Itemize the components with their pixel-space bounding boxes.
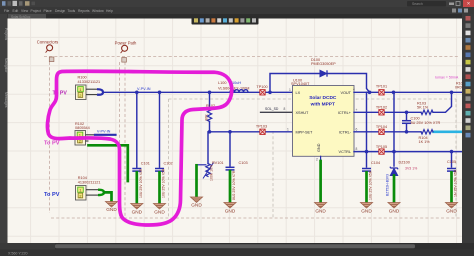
svg-text:C101: C101 — [141, 162, 150, 166]
svg-text:Solar DCDC: Solar DCDC — [309, 95, 337, 101]
svg-text:SOL_SD: SOL_SD — [265, 107, 279, 111]
svg-text:30K: 30K — [204, 114, 208, 121]
capacitor C102 — [155, 169, 164, 172]
varistor RV101 — [206, 164, 210, 177]
wire XSHUT / SOL_SD — [261, 111, 293, 113]
svg-text:✕: ✕ — [467, 1, 471, 6]
svg-text:8U 25V 10% X7R: 8U 25V 10% X7R — [411, 121, 441, 125]
svg-text:Search: Search — [412, 2, 423, 6]
wire VCTRL row — [354, 151, 462, 153]
diode D100 — [320, 70, 327, 76]
bottom scrollbar — [0, 243, 474, 250]
ground C105 — [446, 203, 458, 209]
svg-text:+: + — [356, 108, 358, 112]
tab strip — [0, 14, 474, 19]
capacitor C100 — [406, 112, 408, 119]
svg-text:GND: GND — [446, 209, 457, 214]
svg-text:4: 4 — [353, 88, 355, 92]
svg-text:Window: Window — [92, 9, 104, 13]
svg-text:8: 8 — [284, 107, 286, 111]
svg-text:XSHUT: XSHUT — [296, 111, 310, 115]
wire R102 pin2 green — [89, 145, 128, 181]
svg-text:5K 1%: 5K 1% — [417, 106, 429, 110]
capacitor C101 — [132, 169, 141, 172]
wire VOUT feedback vertical — [393, 92, 395, 166]
net label V-PV-IN stub — [95, 134, 116, 136]
wire V-PV-IN main — [103, 91, 293, 93]
svg-text:2: 2 — [316, 158, 318, 162]
svg-text:Projects: Projects — [4, 28, 8, 41]
svg-text:C105: C105 — [447, 160, 456, 164]
ground C103 — [224, 203, 236, 209]
svg-text:1: 1 — [289, 88, 291, 92]
svg-text:8: 8 — [356, 147, 358, 151]
svg-text:R100: R100 — [78, 76, 87, 80]
svg-text:1K 1%: 1K 1% — [419, 140, 431, 144]
svg-text:1: 1 — [287, 127, 289, 131]
wire ICTRL+ row — [354, 111, 421, 113]
blanket dashed box — [169, 99, 457, 218]
resistor R103 — [421, 110, 433, 114]
svg-text:X:560 Y:220: X:560 Y:220 — [8, 251, 28, 255]
capacitor C104 — [362, 169, 371, 172]
svg-text:To PV: To PV — [44, 192, 60, 198]
wire D100-VOUT vertical — [366, 92, 368, 151]
svg-text:C102: C102 — [164, 162, 173, 166]
svg-text:GND: GND — [315, 209, 326, 214]
floating toolbar — [192, 17, 259, 25]
svg-text:10U 25V 10% X5R: 10U 25V 10% X5R — [139, 168, 143, 198]
svg-text:V-PV-IN: V-PV-IN — [137, 87, 151, 91]
svg-text:Tools: Tools — [68, 9, 76, 13]
junction dots — [135, 91, 139, 95]
ground R104 — [106, 202, 118, 208]
wire C103 branch — [229, 132, 231, 166]
wire RV101 branch — [207, 132, 209, 164]
svg-text:GND: GND — [389, 209, 400, 214]
node joiner R100 — [97, 89, 103, 95]
wire R102 branch top — [209, 92, 211, 108]
magenta highlighter loop — [47, 71, 231, 225]
wire C105 branch — [451, 152, 453, 167]
svg-text:MPP-SET: MPP-SET — [296, 130, 314, 134]
svg-text:TP102: TP102 — [376, 105, 387, 109]
wire R104 green to gnd — [98, 190, 104, 195]
wire C101 branch — [136, 92, 138, 167]
wire RV101 to gnd — [197, 164, 206, 166]
wire VOUT row — [354, 91, 462, 93]
region divider dashed lines — [44, 57, 460, 219]
capacitor C105 — [447, 169, 456, 172]
resistor R102 — [207, 109, 211, 122]
svg-text:Navigator: Navigator — [4, 58, 8, 73]
menu bar — [0, 7, 474, 14]
close button — [463, 0, 474, 7]
svg-text:C100: C100 — [411, 116, 420, 120]
svg-text:C103: C103 — [239, 161, 248, 165]
left panel strip — [0, 14, 8, 243]
search box — [407, 1, 446, 7]
svg-text:41300211121: 41300211121 — [78, 180, 101, 184]
wire C104 branch — [366, 152, 368, 167]
wire MPP-SET row — [210, 131, 293, 133]
svg-text:GND: GND — [191, 203, 202, 208]
svg-text:PMEG3050EP: PMEG3050EP — [311, 62, 336, 66]
ground DZ100 — [388, 203, 400, 209]
svg-text:Solar.SchDoc: Solar.SchDoc — [11, 15, 31, 19]
svg-text:Project: Project — [31, 9, 41, 13]
zener diode DZ100 — [390, 167, 397, 176]
svg-text:GND: GND — [317, 143, 321, 152]
resistor R104 — [421, 130, 433, 134]
svg-text:TP100: TP100 — [256, 85, 267, 89]
svg-text:10uH: 10uH — [232, 81, 241, 85]
svg-text:10U 25V 10% X5R: 10U 25V 10% X5R — [369, 170, 373, 200]
svg-text:Place: Place — [44, 9, 52, 13]
svg-text:L100: L100 — [218, 81, 226, 85]
right toolbar — [462, 14, 474, 243]
ground U100 — [315, 203, 327, 209]
svg-text:41330211121: 41330211121 — [78, 80, 101, 84]
title bar — [0, 0, 474, 7]
wire R102 branch bottom — [209, 122, 211, 132]
svg-text:GND: GND — [154, 210, 165, 215]
ground C102 — [154, 204, 166, 210]
ground C104 — [361, 203, 373, 209]
svg-text:ICTRL+: ICTRL+ — [338, 111, 352, 115]
status bar — [0, 250, 474, 256]
svg-text:Power Path: Power Path — [115, 40, 137, 45]
ground C101 — [131, 204, 143, 210]
svg-text:6: 6 — [356, 127, 358, 131]
svg-text:Edit: Edit — [13, 9, 19, 13]
svg-text:DZ100: DZ100 — [399, 161, 410, 165]
wire ICTRL- highlighted cyan — [434, 131, 463, 134]
svg-text:Help: Help — [106, 9, 113, 13]
svg-text:Reports: Reports — [78, 9, 90, 13]
svg-text:0805544: 0805544 — [75, 126, 90, 130]
svg-text:1N 25V 10% X5R: 1N 25V 10% X5R — [454, 169, 458, 197]
ground RV101 — [191, 197, 203, 203]
svg-text:View: View — [21, 9, 29, 13]
svg-text:RV101: RV101 — [212, 161, 224, 165]
wire C102 branch — [159, 92, 161, 167]
svg-text:GND: GND — [132, 210, 143, 215]
svg-text:Messages: Messages — [4, 92, 8, 108]
svg-text:GND: GND — [106, 207, 117, 212]
svg-text:Iomax = 50mA: Iomax = 50mA — [435, 75, 459, 79]
svg-text:Design: Design — [55, 9, 65, 13]
svg-text:C104: C104 — [371, 161, 380, 165]
svg-text:3V3 1%: 3V3 1% — [405, 167, 417, 171]
svg-text:GND: GND — [225, 209, 236, 214]
svg-text:with MPPT: with MPPT — [310, 102, 335, 108]
svg-text:ICTRL-: ICTRL- — [339, 130, 352, 134]
svg-text:File: File — [4, 9, 9, 13]
svg-text:TP103: TP103 — [256, 124, 267, 128]
svg-text:TP105: TP105 — [376, 145, 387, 149]
svg-text:Connectors: Connectors — [37, 40, 58, 45]
svg-text:BZT52H-B3V3: BZT52H-B3V3 — [385, 174, 389, 196]
wire ICTRL- row — [354, 131, 421, 133]
IC GND wire — [320, 156, 322, 161]
svg-text:8U2 25V 10% X7R: 8U2 25V 10% X7R — [232, 170, 236, 200]
wire D100 loop — [270, 74, 319, 93]
svg-text:TP104: TP104 — [376, 125, 387, 129]
svg-text:LX: LX — [296, 91, 301, 95]
svg-text:10U 25V 10% X5R: 10U 25V 10% X5R — [162, 168, 166, 198]
svg-text:100K 10%: 100K 10% — [210, 165, 214, 181]
svg-text:VOUT: VOUT — [340, 91, 351, 95]
svg-text:VCTRL: VCTRL — [339, 150, 351, 154]
capacitor C103 — [226, 167, 235, 170]
svg-text:V-PV-IN: V-PV-IN — [97, 130, 111, 134]
svg-text:To PV: To PV — [44, 141, 60, 147]
svg-text:TP101: TP101 — [376, 85, 387, 89]
svg-text:GND: GND — [361, 209, 372, 214]
